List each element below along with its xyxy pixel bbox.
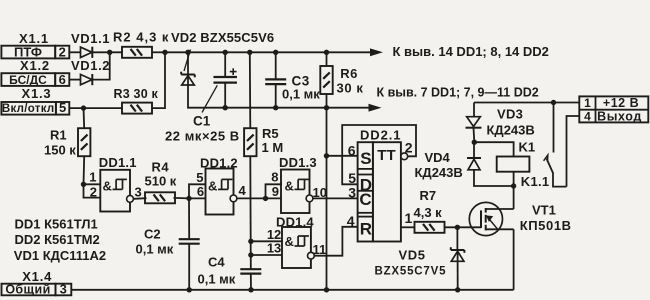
bubble DD1.4 output bbox=[308, 252, 315, 259]
pin 5 of X1.3 bbox=[56, 100, 69, 115]
wire ground rail bbox=[225, 107, 369, 109]
pin 3 label bbox=[135, 185, 142, 200]
wire coil top bbox=[474, 142, 513, 156]
hysteresis DD1.3 bbox=[295, 179, 309, 189]
label VD2 bbox=[171, 30, 274, 45]
svg-text:3: 3 bbox=[348, 185, 356, 201]
resistor R1 bbox=[78, 128, 90, 156]
label DD2.1 bbox=[360, 127, 401, 142]
svg-text:0,1 мк: 0,1 мк bbox=[136, 241, 174, 256]
arrow VDD to DD supply pins bbox=[370, 48, 383, 56]
label R6 bbox=[340, 66, 358, 81]
capacitor C1 bbox=[213, 77, 237, 83]
zener VD5 bbox=[451, 247, 465, 261]
pin 2 label DD2 bbox=[405, 139, 413, 155]
wire DD1.2 pin6 bbox=[189, 197, 206, 199]
resistor R3 bbox=[122, 103, 152, 114]
label VD5 value bbox=[375, 265, 447, 277]
svg-text:0,1 мк: 0,1 мк bbox=[198, 272, 236, 287]
wire DD1.3 out to DD2.1 C bbox=[313, 197, 358, 199]
junction coil bottom bbox=[511, 183, 516, 188]
svg-text:&: & bbox=[285, 234, 294, 249]
connector X2 outer bbox=[579, 96, 648, 122]
svg-text:TT: TT bbox=[377, 147, 395, 164]
ampersand DD1.2 bbox=[208, 179, 217, 194]
svg-text:5: 5 bbox=[59, 100, 66, 115]
svg-text:R7: R7 bbox=[420, 188, 437, 203]
wire R7 to gate bbox=[444, 226, 481, 228]
leader C1 bbox=[202, 85, 217, 112]
label C2 bbox=[144, 226, 161, 241]
svg-text:+12 В: +12 В bbox=[603, 96, 639, 110]
hysteresis DD1.1 bbox=[113, 179, 127, 189]
svg-text:VD1.2: VD1.2 bbox=[71, 58, 110, 73]
VT1 gate bar bbox=[480, 210, 482, 228]
wire C1 bottom bbox=[224, 83, 226, 108]
bubble DD2.1 pin2 bbox=[401, 153, 408, 160]
pin 12 label bbox=[267, 227, 281, 242]
VT1 substrate arrow bbox=[486, 215, 497, 228]
svg-text:X1.4: X1.4 bbox=[22, 269, 52, 284]
svg-text:1: 1 bbox=[584, 96, 591, 110]
junction C1 ground bbox=[223, 105, 228, 110]
contact K1.1 tick bbox=[544, 155, 548, 162]
resistor R7 bbox=[415, 222, 445, 233]
label VD3 bbox=[497, 106, 523, 121]
pin 11 label bbox=[313, 242, 327, 257]
label DD1.1 bbox=[99, 155, 137, 170]
svg-text:К выв. 14 DD1; 8, 14 DD2: К выв. 14 DD1; 8, 14 DD2 bbox=[393, 44, 549, 59]
label C1 value bbox=[165, 129, 240, 144]
label VD1 type bbox=[14, 248, 106, 263]
svg-text:8: 8 bbox=[271, 169, 278, 184]
connector X2 dividers bbox=[579, 96, 648, 122]
wire X1.3 to R3 bbox=[69, 107, 122, 109]
wire VD3 to junction bbox=[473, 128, 476, 143]
svg-text:1: 1 bbox=[405, 210, 413, 226]
arrow ground to DD pins bbox=[369, 104, 382, 112]
svg-text:VD5: VD5 bbox=[399, 247, 426, 262]
contact K1.1 fixed lead bbox=[553, 103, 555, 153]
cell letter C bbox=[359, 190, 371, 209]
wire S input bbox=[327, 155, 358, 157]
pin 1 label bbox=[89, 170, 96, 185]
svg-text:VD2 BZX55C5V6: VD2 BZX55C5V6 bbox=[171, 30, 274, 45]
label R7 bbox=[420, 188, 437, 203]
junction K1.1 tap bbox=[551, 100, 556, 105]
connector X1.4 Общий bbox=[2, 283, 56, 297]
wire coil bottom bbox=[513, 172, 515, 186]
op-amp DD1.1 gate box bbox=[100, 170, 130, 212]
svg-text:4: 4 bbox=[584, 109, 591, 123]
wire bottom rail bbox=[71, 289, 514, 291]
contact K1.1 blade bbox=[547, 159, 567, 187]
junction DD1.4 pin13 tap bbox=[248, 252, 253, 257]
svg-text:VD3: VD3 bbox=[497, 106, 523, 121]
label C3 value bbox=[282, 87, 320, 102]
label VD3 value bbox=[487, 122, 535, 137]
cell letter R bbox=[360, 220, 372, 239]
svg-text:3: 3 bbox=[135, 185, 142, 200]
label R4 bbox=[152, 159, 170, 174]
svg-text:К выв. 7 DD1; 7, 9—11 DD2: К выв. 7 DD1; 7, 9—11 DD2 bbox=[377, 86, 539, 100]
pin 6 label DD2 bbox=[348, 142, 356, 158]
wire R1 top bbox=[83, 108, 86, 128]
resistor R2 bbox=[122, 47, 152, 58]
label C1 bbox=[193, 114, 211, 129]
wire VD4 anode bbox=[474, 170, 514, 186]
wire R5 line upper bbox=[249, 52, 252, 128]
label TT bbox=[377, 147, 395, 164]
svg-text:КД243В: КД243В bbox=[487, 122, 535, 137]
wire drain up to coil bbox=[513, 186, 515, 209]
wire DD1.1 pin1 bbox=[84, 183, 101, 185]
svg-text:VD4: VD4 bbox=[425, 150, 451, 165]
svg-text:R2 4,3 к: R2 4,3 к bbox=[113, 30, 169, 45]
VT1 drain stub bbox=[486, 208, 514, 210]
label DD1.3 bbox=[279, 155, 317, 170]
junction VD3 VD4 coil bbox=[472, 140, 477, 145]
svg-text:Общий: Общий bbox=[5, 283, 50, 297]
label VD4 value bbox=[415, 165, 463, 180]
label VD5 bbox=[399, 247, 426, 262]
transistor VT1 circle bbox=[469, 202, 502, 235]
wire VD1.2 cathode up to node A bbox=[92, 52, 109, 79]
label R5 value bbox=[262, 140, 284, 155]
resistor R5 bbox=[244, 128, 256, 156]
svg-text:R1: R1 bbox=[50, 128, 67, 143]
junction C3 ground bbox=[273, 105, 278, 110]
wire DD1.4 pin12 bbox=[251, 240, 282, 242]
svg-text:R5: R5 bbox=[262, 126, 279, 141]
wire X1.2 to VD1.2 bbox=[69, 79, 80, 81]
label VD4 bbox=[425, 150, 451, 165]
svg-text:R6: R6 bbox=[340, 66, 358, 81]
wire C2 top bbox=[188, 198, 190, 239]
svg-text:КД243В: КД243В bbox=[415, 165, 463, 180]
hysteresis DD1.2 bbox=[218, 179, 232, 189]
diode VD3 bbox=[466, 117, 482, 128]
pin 1 label DD2 bbox=[405, 210, 413, 226]
svg-text:C: C bbox=[359, 190, 371, 209]
pin 9 label bbox=[272, 184, 279, 199]
svg-text:VD1 КДС111А2: VD1 КДС111А2 bbox=[14, 248, 106, 263]
svg-text:C1: C1 bbox=[193, 114, 211, 129]
junction R6 top bbox=[324, 50, 329, 55]
label DD2 type bbox=[15, 232, 100, 247]
pin 10 label bbox=[313, 185, 327, 200]
op-amp DD1.2 gate box bbox=[206, 169, 234, 215]
wire DD1.4 pin13 bbox=[251, 254, 282, 256]
label К выв. 7 DD1 bbox=[377, 86, 539, 100]
label R7 value bbox=[414, 205, 443, 220]
wire DD1.2 pin5 bracket bbox=[189, 184, 206, 198]
connector X1.3 Вкл/откл bbox=[1, 102, 56, 115]
svg-text:C2: C2 bbox=[144, 226, 161, 241]
diode VD1.2 bbox=[81, 74, 93, 85]
pin 5 label DD2 bbox=[348, 170, 356, 186]
junction VD5 tap bbox=[455, 225, 460, 230]
junction DD1.2 input C2 tap bbox=[186, 196, 191, 201]
junction R5 line top bbox=[247, 50, 252, 55]
label VT1 bbox=[532, 202, 556, 217]
svg-text:&: & bbox=[103, 179, 112, 194]
junction R6 bottom ground rail bbox=[324, 105, 329, 110]
pin 4 label DD2 bbox=[347, 213, 355, 229]
svg-text:2: 2 bbox=[59, 45, 66, 60]
relay K1 coil bbox=[497, 157, 530, 172]
svg-text:3: 3 bbox=[60, 282, 67, 297]
svg-text:DD2.1: DD2.1 bbox=[360, 127, 401, 142]
wire Q-bar feedback to D bbox=[342, 125, 416, 184]
wire DD1.4 out to R input bbox=[314, 227, 357, 256]
svg-text:1 М: 1 М bbox=[262, 140, 284, 155]
wire +12V line bbox=[474, 102, 579, 104]
leader VD2 bbox=[184, 50, 191, 72]
label DD1 type bbox=[15, 216, 98, 231]
ampersand DD1.3 bbox=[285, 179, 294, 194]
diode VD1.1 bbox=[81, 47, 93, 58]
junction C4 ground bbox=[248, 287, 253, 292]
label K1 bbox=[519, 140, 536, 155]
capacitor C3 bbox=[265, 79, 286, 84]
svg-text:DD1.2: DD1.2 bbox=[200, 156, 238, 171]
svg-text:DD1 К561ТЛ1: DD1 К561ТЛ1 bbox=[15, 216, 98, 231]
pin 4 label bbox=[239, 183, 247, 198]
wire VD4 cathode bbox=[473, 142, 475, 158]
svg-text:6: 6 bbox=[59, 72, 66, 87]
pin 2 of X1.1 bbox=[55, 45, 69, 60]
flip-flop DD2.1 pin cells bbox=[358, 142, 373, 241]
node X1.4 label bbox=[22, 269, 52, 284]
svg-text:R: R bbox=[360, 220, 372, 239]
svg-text:150 к: 150 к bbox=[44, 142, 76, 157]
svg-text:11: 11 bbox=[313, 242, 327, 257]
svg-text:VT1: VT1 bbox=[532, 202, 556, 217]
label +12 В bbox=[603, 96, 639, 110]
svg-text:Вкл/откл: Вкл/откл bbox=[2, 103, 55, 115]
svg-text:DD1.3: DD1.3 bbox=[279, 155, 317, 170]
wire VD3 top bbox=[473, 103, 475, 117]
svg-text:DD1.1: DD1.1 bbox=[99, 155, 137, 170]
node A junction bbox=[107, 50, 112, 55]
svg-text:6: 6 bbox=[348, 142, 356, 158]
svg-text:Выход: Выход bbox=[597, 110, 642, 124]
svg-text:S: S bbox=[360, 149, 371, 168]
label C4 value bbox=[198, 272, 236, 287]
svg-text:4: 4 bbox=[239, 183, 247, 198]
label VD1.1 bbox=[71, 31, 110, 46]
pin 3 of X1.4 bbox=[56, 282, 72, 297]
wire VD5 bottom bbox=[457, 261, 459, 290]
label R2 value bbox=[113, 30, 169, 45]
svg-text:X1.3: X1.3 bbox=[22, 86, 52, 101]
pin 13 label bbox=[267, 240, 281, 255]
label R3 value bbox=[114, 87, 159, 101]
svg-text:2: 2 bbox=[405, 139, 413, 155]
junction DD1.1 pin1 bbox=[81, 182, 86, 187]
op-amp DD1.3 gate box bbox=[281, 170, 310, 214]
label C2 value bbox=[136, 241, 174, 256]
wire R3 out up to VDD bbox=[152, 52, 165, 108]
cell letter D bbox=[360, 176, 372, 195]
wire DD1.2 out to DD1.3 bbox=[237, 197, 281, 199]
svg-text:R4: R4 bbox=[152, 159, 170, 174]
svg-text:K1.1: K1.1 bbox=[521, 174, 550, 189]
wire VD2 bottom to ground rail bbox=[188, 85, 225, 108]
junction DD1.4 pin12 tap bbox=[248, 239, 253, 244]
wire C1 top bbox=[224, 52, 226, 77]
plus sign C1 bbox=[230, 68, 237, 75]
svg-text:КП501В: КП501В bbox=[520, 218, 572, 233]
capacitor C2 bbox=[179, 239, 200, 244]
ampersand DD1.1 bbox=[103, 179, 112, 194]
wire R2 to VDD rail bbox=[152, 51, 165, 53]
node X1.2 label bbox=[20, 58, 50, 73]
junction R1 tap bbox=[81, 105, 86, 110]
junction R2/R3 bbox=[162, 50, 167, 55]
svg-text:&: & bbox=[208, 179, 217, 194]
junction C3 top bbox=[273, 50, 278, 55]
pin 2 label bbox=[90, 185, 97, 200]
pin 4 label X2 bbox=[584, 109, 591, 123]
junction S wire bbox=[324, 153, 329, 158]
bubble DD1.2 output bbox=[230, 195, 237, 202]
wire DD2.1 pin1 to R7 bbox=[401, 226, 415, 228]
label R5 bbox=[262, 126, 279, 141]
svg-text:22 мк×25 В: 22 мк×25 В bbox=[165, 129, 240, 144]
wire VD1.1 cathode to node A bbox=[92, 51, 122, 53]
svg-text:4,3 к: 4,3 к bbox=[414, 205, 443, 220]
junction VD2 top bbox=[185, 50, 190, 55]
wire contact to Vyhod bbox=[567, 116, 580, 187]
connector X1.2 БС/ДС bbox=[1, 73, 55, 87]
svg-text:30 к: 30 к bbox=[337, 80, 364, 95]
label C3 bbox=[292, 73, 310, 88]
label DD1.4 bbox=[276, 215, 314, 230]
junction DD1.3 pin89 tap bbox=[263, 196, 268, 201]
pin 6 of X1.2 bbox=[55, 72, 69, 87]
wire C3 top bbox=[275, 52, 277, 79]
wire C2 bottom bbox=[188, 244, 190, 290]
wire R6 top bbox=[326, 52, 328, 65]
wire R5 line lower bbox=[249, 156, 252, 269]
label Выход bbox=[597, 110, 642, 124]
resistor R6 bbox=[320, 66, 332, 94]
wire C4 bottom bbox=[250, 274, 252, 290]
label VD1.2 bbox=[71, 58, 110, 73]
svg-text:6: 6 bbox=[197, 184, 204, 199]
label R4 value bbox=[145, 174, 177, 189]
diode VD4 bbox=[467, 158, 481, 170]
ampersand DD1.4 bbox=[285, 234, 294, 249]
pin 3 label DD2 bbox=[348, 185, 356, 201]
wire DD1.3 pin8 bracket bbox=[266, 184, 283, 198]
svg-text:DD1.4: DD1.4 bbox=[276, 215, 314, 230]
bubble DD1.1 output bbox=[127, 196, 134, 203]
svg-text:BZX55C7V5: BZX55C7V5 bbox=[375, 265, 447, 277]
svg-text:&: & bbox=[285, 179, 294, 194]
wire X1.1 to VD1.1 bbox=[69, 51, 80, 53]
label К выв. 14 DD1 bbox=[393, 44, 549, 59]
svg-text:R3 30 к: R3 30 к bbox=[114, 87, 159, 101]
wire source down to rail bbox=[513, 229, 515, 289]
svg-text:C4: C4 bbox=[208, 255, 225, 270]
wire C3 bottom bbox=[275, 84, 277, 108]
wire R4 to DD1.2 bbox=[174, 197, 190, 200]
flip-flop DD2.1 body bbox=[373, 142, 401, 241]
node X1.1 label bbox=[19, 31, 49, 46]
wire R1 bottom to DD1.1 inputs bbox=[84, 156, 101, 197]
pin 1 label X2 bbox=[584, 96, 591, 110]
label DD1.2 bbox=[200, 156, 238, 171]
svg-text:X1.2: X1.2 bbox=[20, 58, 50, 73]
wire DD1.1 out to R4 bbox=[133, 197, 146, 200]
VT1 channel bbox=[485, 208, 487, 230]
hysteresis DD1.4 bbox=[295, 236, 309, 246]
op-amp DD1.4 gate box bbox=[282, 227, 311, 268]
label R1 bbox=[50, 128, 67, 143]
junction C2 ground bbox=[187, 287, 192, 292]
label C4 bbox=[208, 255, 225, 270]
label K1.1 bbox=[521, 174, 550, 189]
junction C1 top bbox=[223, 50, 228, 55]
wire VD2 top bbox=[187, 52, 189, 74]
svg-text:DD2 К561ТМ2: DD2 К561ТМ2 bbox=[15, 232, 100, 247]
svg-text:9: 9 bbox=[272, 184, 279, 199]
svg-text:VD1.1: VD1.1 bbox=[71, 31, 110, 46]
bubble DD1.3 output bbox=[306, 195, 313, 202]
label R1 value bbox=[44, 142, 76, 157]
svg-text:2: 2 bbox=[90, 185, 97, 200]
svg-text:510 к: 510 к bbox=[145, 174, 177, 189]
zener VD2 bbox=[181, 72, 195, 85]
capacitor C4 bbox=[240, 269, 261, 273]
svg-text:5: 5 bbox=[196, 170, 203, 185]
wire long vertical ground link bbox=[326, 95, 328, 290]
junction bottom rail link bbox=[324, 287, 329, 292]
wire VD5 top bbox=[456, 227, 458, 250]
svg-text:1: 1 bbox=[89, 170, 96, 185]
label VT1 type bbox=[520, 218, 572, 233]
node X1.3 label bbox=[22, 86, 52, 101]
svg-text:K1: K1 bbox=[519, 140, 536, 155]
VT1 source stub bbox=[486, 228, 514, 230]
cell letter S bbox=[360, 149, 371, 168]
label R6 value bbox=[337, 80, 364, 95]
connector X1.1 ПТФ bbox=[1, 45, 55, 60]
pin 5 label bbox=[196, 170, 203, 185]
pin 8 label bbox=[271, 169, 278, 184]
junction VD5 ground bbox=[455, 287, 460, 292]
pin 6 label bbox=[197, 184, 204, 199]
wire VDD rail bbox=[165, 51, 371, 53]
svg-text:0,1 мк: 0,1 мк bbox=[282, 87, 320, 102]
svg-text:13: 13 bbox=[267, 240, 281, 255]
resistor R4 bbox=[145, 192, 175, 203]
